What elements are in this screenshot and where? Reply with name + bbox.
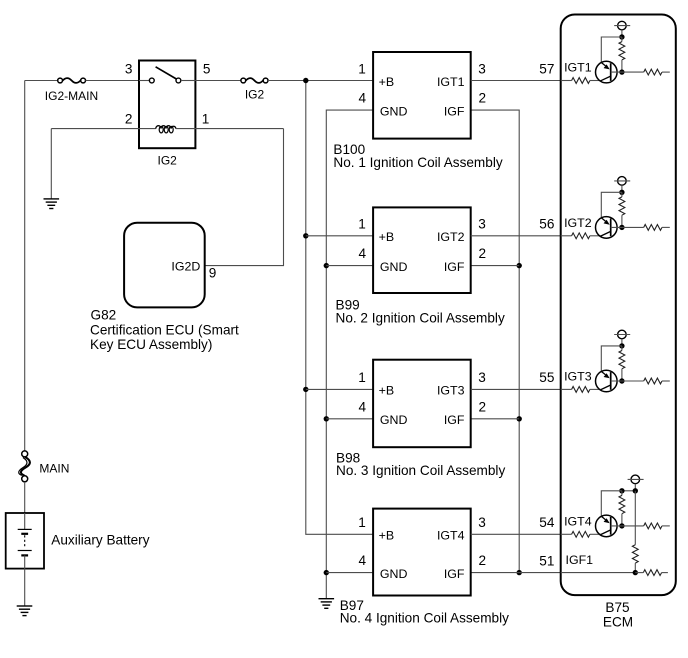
wire emitter feed IGT3 bbox=[601, 346, 622, 372]
svg-text:GND: GND bbox=[380, 260, 408, 274]
wire ECM pin 55 lead-in bbox=[561, 388, 572, 390]
svg-text:1: 1 bbox=[358, 217, 366, 232]
transistor IGT1 driver bbox=[596, 61, 618, 83]
wire +B bus to B98 pin1 bbox=[306, 388, 373, 390]
wire resistor to base node IGT2 bbox=[621, 215, 623, 227]
wire GND bus to B97 pin4 bbox=[326, 572, 373, 574]
ignition coil assembly B98 box bbox=[373, 360, 471, 448]
svg-text:56: 56 bbox=[539, 217, 554, 232]
wire ground to relay pin2 and coil bbox=[51, 128, 156, 130]
ignition coil assembly B100 box bbox=[373, 52, 471, 139]
resistor base pull-up IGT4 bbox=[619, 495, 625, 513]
svg-text:GND: GND bbox=[380, 105, 408, 119]
wire relay pin3 to switch contact bbox=[139, 80, 149, 82]
power supply symbol IGT1 channel bbox=[614, 21, 630, 30]
junction base node IGT2 bbox=[619, 225, 624, 230]
ignition coil assembly B99 box bbox=[373, 207, 471, 293]
junction base node IGT1 bbox=[619, 69, 624, 74]
ignition coil assembly B97 box bbox=[373, 509, 471, 596]
svg-text:57: 57 bbox=[539, 61, 554, 76]
svg-text:3: 3 bbox=[478, 515, 486, 530]
wire ECM pin 54 lead-in bbox=[561, 533, 572, 535]
svg-text:4: 4 bbox=[359, 553, 367, 568]
svg-text:No. 3 Ignition Coil Assembly: No. 3 Ignition Coil Assembly bbox=[336, 463, 505, 478]
wire IGF1 inside ECM bbox=[561, 572, 636, 574]
resistor base right IGT4 bbox=[644, 523, 662, 529]
relay coil IG2 bbox=[156, 126, 176, 133]
resistor IGF1 right bbox=[643, 570, 661, 576]
svg-text:9: 9 bbox=[209, 266, 217, 281]
svg-text:IGT3: IGT3 bbox=[564, 370, 592, 384]
svg-text:5: 5 bbox=[203, 61, 211, 76]
relay switch contact right bbox=[176, 78, 181, 83]
junction power node IGT3 bbox=[619, 343, 624, 348]
relay switch blade bbox=[156, 67, 177, 79]
wire power symbol stem IGT1 bbox=[621, 30, 623, 37]
wire B98 IGF to IGF bus bbox=[471, 418, 520, 420]
resistor base pull-up IGT3 bbox=[619, 351, 625, 369]
svg-text:IGT4: IGT4 bbox=[437, 529, 465, 543]
power supply symbol IGT3 channel bbox=[614, 330, 630, 339]
wire ECM pin 56 lead-in bbox=[561, 235, 572, 237]
svg-text:3: 3 bbox=[125, 61, 133, 76]
svg-text:4: 4 bbox=[359, 246, 367, 261]
wire power node to resistor IGT2 bbox=[621, 192, 623, 197]
svg-text:IG2-MAIN: IG2-MAIN bbox=[45, 89, 98, 103]
wire GND bus to B98 pin4 bbox=[326, 418, 373, 420]
junction IGF1 node bbox=[633, 570, 638, 575]
junction power node IGT1 bbox=[619, 34, 624, 39]
svg-text:No. 1 Ignition Coil Assembly: No. 1 Ignition Coil Assembly bbox=[333, 155, 502, 170]
resistor base pull-up IGT1 bbox=[619, 42, 625, 60]
svg-text:+B: +B bbox=[379, 75, 395, 89]
wire switch contact to relay pin5 bbox=[181, 80, 196, 82]
svg-text:B75: B75 bbox=[605, 600, 629, 615]
junction IGF bus at B99 bbox=[517, 263, 522, 268]
resistor on IGT3 input bbox=[572, 387, 590, 393]
svg-text:51: 51 bbox=[539, 553, 554, 568]
relay switch contact left bbox=[149, 78, 154, 83]
svg-text:IGT2: IGT2 bbox=[437, 230, 465, 244]
wire emitter feed IGT2 bbox=[601, 192, 622, 218]
svg-text:Certification ECU (Smart: Certification ECU (Smart bbox=[90, 322, 239, 337]
svg-text:IGF: IGF bbox=[444, 413, 465, 427]
svg-text:4: 4 bbox=[359, 399, 367, 414]
wire left bus down to MAIN fusible link bbox=[24, 81, 26, 451]
svg-text:IGF: IGF bbox=[444, 567, 465, 581]
wire resistor to transistor IGT4 bbox=[590, 533, 601, 535]
wire power node to resistor IGT1 bbox=[621, 37, 623, 42]
svg-text:IGT2: IGT2 bbox=[564, 216, 592, 230]
fuse IG2-MAIN bbox=[58, 78, 86, 83]
svg-text:IG2D: IG2D bbox=[171, 260, 200, 274]
ground below battery bbox=[17, 606, 33, 616]
svg-text:IGF: IGF bbox=[444, 260, 465, 274]
svg-text:ECM: ECM bbox=[603, 614, 633, 629]
svg-text:GND: GND bbox=[380, 413, 408, 427]
wire relay pin2 to ground bbox=[50, 129, 52, 199]
junction base node IGT4 bbox=[619, 523, 624, 528]
G82 ECU box bbox=[124, 223, 205, 308]
transistor IGT4 driver bbox=[596, 515, 618, 537]
junction base node IGT3 bbox=[619, 378, 624, 383]
svg-text:IGT1: IGT1 bbox=[564, 61, 592, 75]
svg-text:GND: GND bbox=[380, 567, 408, 581]
wire fuse IG2 to B100 +B bbox=[268, 80, 373, 82]
power supply symbol IGT4 channel bbox=[628, 475, 644, 484]
junction GND bus at B97 bbox=[324, 570, 329, 575]
svg-text:No. 2 Ignition Coil Assembly: No. 2 Ignition Coil Assembly bbox=[336, 311, 505, 326]
wire power node to resistor IGT3 bbox=[621, 346, 623, 351]
svg-text:IG2: IG2 bbox=[245, 88, 265, 102]
svg-text:4: 4 bbox=[359, 91, 367, 106]
wire relay pin1 to IG2D drop bbox=[176, 128, 284, 130]
resistor base right IGT2 bbox=[644, 225, 662, 231]
svg-text:3: 3 bbox=[478, 370, 486, 385]
svg-text:1: 1 bbox=[358, 61, 366, 76]
wire resistor stub IGT4 bbox=[662, 525, 670, 527]
fusible link MAIN bbox=[19, 451, 30, 482]
wire power node to resistor IGT4 bbox=[621, 491, 623, 496]
junction GND bus at B99 bbox=[324, 263, 329, 268]
resistor on IGT1 input bbox=[572, 78, 590, 84]
wire resistor to base node IGT1 bbox=[621, 60, 623, 72]
wire IG2D from relay pin1 to G82 pin 9 bbox=[205, 129, 284, 266]
wire power symbol stem IGT4 bbox=[634, 484, 636, 491]
transistor IGT2 driver bbox=[596, 217, 618, 239]
wire resistor to base node IGT3 bbox=[621, 369, 623, 381]
svg-text:IG2: IG2 bbox=[158, 153, 178, 167]
svg-text:IGT3: IGT3 bbox=[437, 384, 465, 398]
wire GND bus from B100 pin4 down bbox=[326, 110, 373, 599]
svg-text:IGT1: IGT1 bbox=[437, 75, 465, 89]
resistor on IGT4 input bbox=[572, 531, 590, 537]
wire IGT4 from B97 to ECM bbox=[471, 533, 561, 535]
wire IGT1 from B100 to ECM bbox=[471, 80, 561, 82]
wire resistor to transistor IGT2 bbox=[590, 235, 601, 237]
wire power link IGT4 bbox=[622, 490, 635, 492]
svg-text:+B: +B bbox=[379, 529, 395, 543]
relay IG2 box bbox=[139, 61, 195, 149]
wire base node to resistor IGT2 bbox=[611, 226, 644, 228]
svg-text:IGF1: IGF1 bbox=[566, 553, 594, 567]
wire IGF pull-up lower bbox=[634, 563, 636, 573]
wire IGF bus from B100 pin2 down bbox=[471, 110, 520, 572]
junction power node IGT4 bbox=[619, 488, 624, 493]
svg-text:IGF: IGF bbox=[444, 105, 465, 119]
wire ECM pin 57 lead-in bbox=[561, 80, 572, 82]
svg-text:2: 2 bbox=[479, 246, 487, 261]
junction +B bus at B99 bbox=[303, 233, 308, 238]
wire IGF1 resistor stub bbox=[662, 572, 668, 574]
junction power node IGT2 bbox=[619, 190, 624, 195]
ECM B75 box bbox=[561, 15, 676, 596]
svg-text:1: 1 bbox=[202, 111, 210, 126]
wire emitter feed IGT1 bbox=[601, 37, 622, 63]
wire resistor stub IGT3 bbox=[662, 380, 670, 382]
junction GND bus at B98 bbox=[324, 416, 329, 421]
svg-text:MAIN: MAIN bbox=[39, 462, 69, 476]
wire resistor to transistor IGT3 bbox=[590, 388, 601, 390]
svg-text:Auxiliary Battery: Auxiliary Battery bbox=[51, 533, 149, 548]
svg-text:54: 54 bbox=[539, 515, 555, 530]
resistor IGF pull-up bbox=[632, 545, 638, 563]
wire base node to resistor IGT4 bbox=[611, 525, 644, 527]
junction +B bus top bbox=[303, 78, 308, 83]
wire resistor to transistor IGT1 bbox=[590, 80, 601, 82]
wire +B bus to B99 pin1 bbox=[306, 235, 373, 237]
wire base node to resistor IGT3 bbox=[611, 380, 644, 382]
ground below relay bbox=[44, 199, 60, 209]
svg-text:1: 1 bbox=[358, 370, 366, 385]
transistor IGT3 driver bbox=[596, 370, 618, 392]
svg-text:2: 2 bbox=[479, 91, 487, 106]
wire top-left from left bus to fuse IG2-MAIN bbox=[25, 80, 58, 82]
svg-text:Key ECU Assembly): Key ECU Assembly) bbox=[90, 337, 212, 352]
wire resistor to base node IGT4 bbox=[621, 514, 623, 526]
junction +B bus at B98 bbox=[303, 387, 308, 392]
fuse IG2 bbox=[241, 78, 268, 83]
ground of coil assemblies bbox=[319, 599, 335, 609]
svg-text:55: 55 bbox=[539, 370, 554, 385]
wire IGF1 node to resistor bbox=[635, 572, 643, 574]
wire base node to resistor IGT1 bbox=[611, 71, 644, 73]
wire B97 IGF to ECM pin 51 bbox=[471, 572, 561, 574]
resistor on IGT2 input bbox=[572, 233, 590, 239]
wire resistor stub IGT2 bbox=[662, 226, 670, 228]
resistor base right IGT1 bbox=[644, 69, 662, 75]
svg-text:G82: G82 bbox=[91, 307, 117, 322]
wire IGT3 from B98 to ECM bbox=[471, 388, 561, 390]
junction power node right IGT4 bbox=[633, 488, 638, 493]
svg-text:3: 3 bbox=[478, 217, 486, 232]
svg-text:3: 3 bbox=[478, 61, 486, 76]
power supply symbol IGT2 channel bbox=[614, 177, 630, 186]
wire IGT2 from B99 to ECM bbox=[471, 235, 561, 237]
wire fuse IG2-MAIN to relay pin 3 bbox=[86, 80, 140, 82]
wire power symbol stem IGT2 bbox=[621, 185, 623, 192]
wire power symbol stem IGT3 bbox=[621, 339, 623, 346]
junction IGF bus at B98 bbox=[517, 416, 522, 421]
battery box bbox=[6, 513, 44, 569]
resistor base right IGT3 bbox=[644, 378, 662, 384]
svg-text:2: 2 bbox=[479, 399, 487, 414]
svg-text:2: 2 bbox=[125, 111, 133, 126]
svg-text:IGT4: IGT4 bbox=[564, 515, 592, 529]
svg-text:2: 2 bbox=[479, 553, 487, 568]
wire relay pin5 to fuse IG2 bbox=[195, 80, 241, 82]
battery symbol plates bbox=[18, 513, 32, 606]
wire resistor stub IGT1 bbox=[662, 71, 670, 73]
svg-text:No. 4 Ignition Coil Assembly: No. 4 Ignition Coil Assembly bbox=[340, 611, 509, 626]
wire emitter feed IGT4 bbox=[601, 491, 622, 517]
wire B99 IGF to IGF bus bbox=[471, 265, 520, 267]
svg-text:+B: +B bbox=[379, 384, 395, 398]
wire +B bus vertical bbox=[306, 81, 373, 535]
wire IGF pull-up upper bbox=[634, 491, 636, 545]
wire MAIN link to battery bbox=[24, 482, 26, 513]
svg-text:1: 1 bbox=[358, 515, 366, 530]
junction IGF bus at B97 bbox=[517, 570, 522, 575]
svg-text:+B: +B bbox=[379, 230, 395, 244]
resistor base pull-up IGT2 bbox=[619, 197, 625, 215]
wire GND bus to B99 pin4 bbox=[326, 265, 373, 267]
